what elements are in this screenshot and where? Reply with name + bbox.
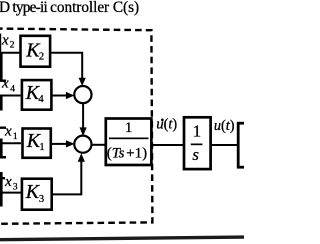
svg-text:(t): (t) (164, 117, 178, 133)
svg-text:4: 4 (10, 84, 15, 94)
svg-text:x: x (4, 123, 12, 139)
svg-text:1: 1 (193, 122, 201, 141)
svg-text:4: 4 (38, 94, 44, 105)
svg-text:s: s (192, 145, 199, 164)
svg-text:3: 3 (39, 194, 44, 205)
svg-text:x: x (1, 32, 9, 48)
svg-text:(t): (t) (221, 118, 235, 134)
svg-text:3: 3 (13, 183, 18, 193)
svg-text:1: 1 (13, 132, 18, 142)
svg-text:x: x (1, 76, 9, 92)
svg-text:2: 2 (10, 41, 15, 51)
svg-text:1: 1 (125, 120, 132, 136)
svg-text:x: x (4, 174, 12, 190)
svg-text:1: 1 (39, 142, 44, 153)
svg-text:D type-ii controller C(s): D type-ii controller C(s) (0, 0, 139, 16)
svg-text:(Ts+1): (Ts+1) (107, 145, 147, 161)
svg-text:u: u (214, 118, 221, 134)
svg-text:2: 2 (39, 52, 44, 63)
